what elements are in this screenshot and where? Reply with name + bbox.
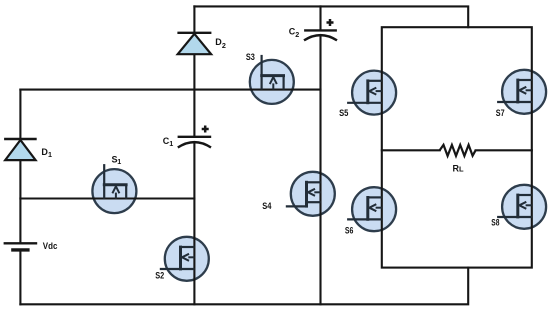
svg-text:S6: S6 (345, 226, 354, 236)
svg-text:Vdc: Vdc (43, 241, 58, 251)
svg-text:S3: S3 (246, 52, 255, 62)
svg-text:1: 1 (169, 139, 173, 148)
svg-text:2: 2 (222, 41, 226, 50)
svg-text:S2: S2 (155, 271, 164, 281)
svg-text:S4: S4 (262, 201, 271, 211)
svg-text:1: 1 (48, 150, 52, 159)
svg-text:1: 1 (117, 157, 121, 166)
svg-text:S8: S8 (491, 217, 499, 227)
svg-text:S7: S7 (496, 108, 505, 118)
svg-text:2: 2 (295, 30, 299, 39)
svg-text:RL: RL (453, 163, 465, 173)
svg-text:S5: S5 (339, 108, 348, 118)
